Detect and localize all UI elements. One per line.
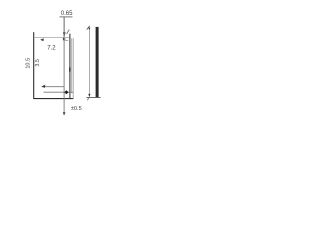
center vertical extension line <box>63 17 65 115</box>
svg-text:0.65: 0.65 <box>61 11 73 17</box>
leader arrowhead down <box>63 32 66 37</box>
side dimension line <box>88 31 90 95</box>
dimension 7.2 left arrowhead <box>40 38 44 41</box>
side dim top arrowhead <box>88 27 90 30</box>
outline right edge (thin) <box>72 38 74 98</box>
strip line dark <box>69 34 71 99</box>
lower dim line A <box>42 86 64 88</box>
short step line <box>64 40 68 42</box>
outline top edge (thin) <box>34 37 70 39</box>
slash mark to strip top <box>67 30 70 34</box>
strip line light <box>71 38 73 93</box>
side view baseline <box>86 97 100 99</box>
bottom end arrowhead of center line <box>63 112 66 115</box>
strip darker dash <box>69 67 71 71</box>
dimension underline for 0.65 <box>60 16 73 18</box>
dimension 7.2 right arrowhead <box>63 38 66 41</box>
diamond arrow pair <box>64 90 68 94</box>
svg-text:7.2: 7.2 <box>47 46 56 52</box>
lower dim line B <box>44 91 74 93</box>
svg-text:10.5: 10.5 <box>26 58 32 69</box>
background <box>0 0 128 128</box>
side dim bottom arrowhead <box>88 94 90 97</box>
leader line down from 0.65 <box>63 17 65 37</box>
side view bar <box>96 27 99 98</box>
side dim bottom slash <box>87 98 89 101</box>
svg-text:3.5: 3.5 <box>35 59 41 67</box>
svg-text:±0.5: ±0.5 <box>71 106 82 112</box>
outline left edge <box>33 32 35 98</box>
side dim top slash <box>87 26 90 30</box>
outline bottom edge <box>33 98 73 100</box>
lower dim A arrowhead <box>41 85 45 88</box>
